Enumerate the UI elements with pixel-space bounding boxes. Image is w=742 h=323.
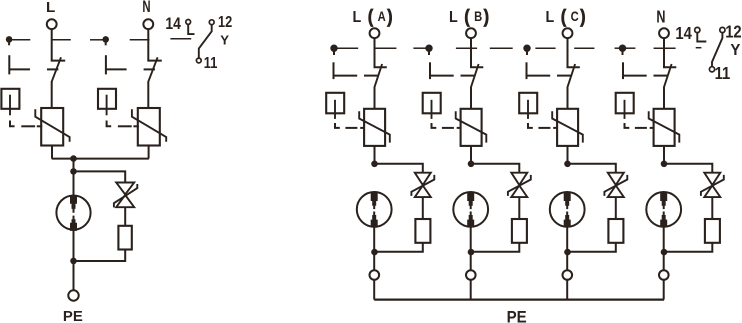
bidirectional suppressor diode (L(C) path) bbox=[608, 173, 624, 197]
resistor (N2 path) bbox=[705, 219, 720, 243]
wire N varistor to bus bbox=[148, 146, 150, 159]
vertical linkage dash N bbox=[105, 55, 107, 74]
junction dot on bus bbox=[70, 155, 77, 162]
terminal circle N2 bbox=[659, 28, 669, 38]
remote contact terminal 14 (right) bbox=[695, 27, 700, 32]
varistor MOV (N2 path) bbox=[654, 109, 675, 146]
varistor MOV (L(B) path) bbox=[461, 109, 482, 146]
contact blade 12-11 (left) bbox=[199, 25, 212, 58]
linkage dashed line (left) seg2 at L wire bbox=[52, 39, 71, 41]
vertical linkage dash L(C) bbox=[526, 62, 528, 79]
svg-text:): ) bbox=[484, 5, 489, 27]
svg-text:(: ( bbox=[464, 5, 469, 27]
resistor (L(C) path) bbox=[608, 219, 623, 243]
wire N2 disconnector to varistor bbox=[663, 87, 665, 109]
wire L(A) varistor to junction bbox=[374, 146, 376, 164]
varistor MOV (N path) bbox=[138, 108, 160, 146]
junction dot above PE bbox=[70, 258, 77, 265]
junction dot L(B) bbox=[468, 161, 475, 168]
horizontal linkage dash to L(A) blade bbox=[334, 75, 358, 77]
svg-text:12: 12 bbox=[725, 23, 741, 42]
svg-text:N: N bbox=[656, 8, 665, 28]
wire L(C) varistor to junction bbox=[567, 146, 569, 164]
wire L(A) disconnector to varistor bbox=[374, 87, 376, 109]
terminal circle L(C) bbox=[563, 28, 573, 38]
wire GDT to PE N2 bbox=[663, 227, 665, 270]
wire GDT to PE L(A) bbox=[373, 227, 375, 270]
horizontal linkage dash to L blade bbox=[9, 68, 30, 70]
terminal circle L(A) bbox=[370, 28, 380, 38]
wire GDT to PE L(C) bbox=[566, 227, 568, 270]
disconnect plunger (L path) bbox=[9, 95, 11, 116]
linkage dash b2 bbox=[490, 47, 513, 49]
branch wire to suppressor L(C) bbox=[568, 164, 616, 173]
linkage dash c1b right of L(C) wire bbox=[574, 47, 594, 49]
wire suppressor to resistor N2 bbox=[711, 197, 713, 219]
PE bus bbox=[374, 299, 664, 301]
remote contact terminal 12 (left) bbox=[209, 20, 214, 25]
PE path terminal circle L(C) bbox=[563, 270, 573, 280]
junction dot N2 bbox=[661, 161, 668, 168]
GDT lower electrode L(B) bbox=[467, 212, 474, 228]
disconnect plunger (L(B) path) bbox=[431, 100, 433, 119]
wire resistor to junction L(A) bbox=[375, 243, 423, 252]
wire to PE bus L(C) bbox=[566, 280, 568, 300]
varistor diagonal stroke (L path) bbox=[35, 109, 69, 141]
svg-text:Y: Y bbox=[220, 32, 229, 47]
linkage junction dot near L bbox=[6, 36, 13, 43]
wire L(A) terminal to disconnector bbox=[375, 38, 387, 67]
varistor MOV (L(C) path) bbox=[557, 109, 578, 146]
svg-text:L: L bbox=[546, 9, 555, 27]
wire L terminal to disconnector bbox=[52, 29, 65, 60]
remote contact terminal 11 (left) bbox=[196, 58, 201, 63]
remote contact terminal 12 (right) bbox=[720, 27, 725, 32]
wire L(B) disconnector to varistor bbox=[470, 87, 472, 109]
vertical linkage dash N2 bbox=[622, 62, 624, 79]
wire L(C) terminal to disconnector bbox=[568, 38, 580, 67]
svg-text:PE: PE bbox=[63, 308, 83, 323]
GDT upper electrode L(B) bbox=[467, 192, 474, 209]
contact blade 12-11 (right) bbox=[712, 33, 722, 67]
wire L(C) disconnector to varistor bbox=[567, 87, 569, 109]
wire resistor to junction N2 bbox=[664, 243, 712, 252]
dashed link below box (L(C) path) bbox=[528, 123, 533, 128]
wire suppressor to resistor bbox=[124, 207, 126, 226]
dashed link below box (L(A) path) bbox=[335, 123, 340, 128]
svg-text:A: A bbox=[378, 9, 386, 24]
resistor (left) bbox=[118, 226, 131, 250]
linkage dash crossing N blade bbox=[144, 68, 155, 70]
vertical linkage dash L(B) bbox=[429, 62, 431, 79]
wire L varistor to bus bbox=[51, 146, 53, 159]
suppressor diagonal stroke (left) bbox=[114, 184, 137, 207]
thermal disconnector switch blade (L(C) path) bbox=[567, 64, 575, 88]
gas discharge tube (L(B) path) bbox=[453, 192, 488, 227]
wire N2 varistor to junction bbox=[663, 146, 665, 164]
linkage dash n2 bbox=[654, 47, 676, 49]
wire resistor to junction L(B) bbox=[471, 243, 519, 252]
GDT lower electrode L(C) bbox=[564, 212, 571, 228]
wire N disconnector to varistor bbox=[147, 81, 149, 108]
branch wire to suppressor N2 bbox=[664, 164, 712, 173]
terminal circle N bbox=[143, 19, 153, 29]
wire to PE bus L(B) bbox=[470, 280, 472, 300]
varistor MOV (L path) bbox=[41, 108, 63, 146]
wire resistor to junction L(C) bbox=[568, 243, 616, 252]
GDT upper electrode bbox=[70, 195, 77, 212]
svg-text:C: C bbox=[571, 9, 579, 24]
wire to PE bus L(A) bbox=[373, 280, 375, 300]
wire suppressor to resistor L(B) bbox=[518, 197, 520, 219]
linkage dash crossing L(C) blade bbox=[557, 75, 572, 77]
wire suppressor to resistor L(C) bbox=[615, 197, 617, 219]
branch wire to suppressor L(A) bbox=[375, 164, 423, 173]
gas discharge tube (N2 path) bbox=[646, 192, 681, 227]
linkage dashed line (left) seg1 bbox=[12, 39, 30, 41]
GDT lower electrode L(A) bbox=[371, 212, 378, 228]
svg-text:11: 11 bbox=[715, 64, 731, 83]
svg-text:(: ( bbox=[561, 5, 566, 27]
bus wire joining varistors bbox=[52, 158, 149, 160]
GDT lower electrode bbox=[70, 216, 77, 231]
linkage dot L(B) bbox=[425, 45, 432, 52]
svg-text:(: ( bbox=[368, 5, 373, 27]
varistor diagonal stroke (N2 path) bbox=[649, 111, 680, 142]
linkage dash crossing L blade bbox=[47, 68, 58, 70]
varistor diagonal stroke (N path) bbox=[132, 109, 166, 141]
thermal disconnector switch blade (N path) bbox=[148, 57, 157, 81]
thermal disconnector switch blade (L(B) path) bbox=[471, 64, 479, 88]
linkage dot N2 bbox=[619, 45, 626, 52]
varistor MOV (L(A) path) bbox=[364, 109, 385, 146]
linkage dash to contact (left) bbox=[170, 38, 191, 40]
horizontal linkage dash to N blade bbox=[106, 68, 127, 70]
gas discharge tube (L(C) path) bbox=[550, 192, 585, 227]
linkage dash a1b at L(A) wire bbox=[375, 47, 397, 49]
linkage dash crossing N2 blade bbox=[654, 75, 669, 77]
wire L(B) terminal to disconnector bbox=[471, 38, 483, 67]
svg-text:L: L bbox=[46, 0, 55, 16]
remote contact terminal 14 (left) bbox=[186, 20, 191, 25]
GDT upper electrode L(A) bbox=[371, 192, 378, 209]
resistor (L(A) path) bbox=[415, 219, 430, 243]
linkage dot L(A) bbox=[330, 45, 337, 52]
bidirectional suppressor diode (L(B) path) bbox=[511, 173, 527, 197]
wire suppressor to resistor L(A) bbox=[422, 197, 424, 219]
varistor diagonal stroke (L(B) path) bbox=[456, 111, 487, 142]
linkage junction dot near N bbox=[102, 36, 109, 43]
resistor (L(B) path) bbox=[512, 219, 527, 243]
PE terminal circle (left) bbox=[68, 290, 78, 300]
PE path terminal circle L(A) bbox=[370, 270, 380, 280]
suppressor diagonal stroke (L(A) path) bbox=[411, 175, 434, 196]
junction dot L(C) bbox=[564, 161, 571, 168]
disconnect plunger (L(A) path) bbox=[334, 100, 336, 119]
disconnect plunger (L(C) path) bbox=[527, 100, 529, 119]
svg-text:L: L bbox=[353, 9, 362, 27]
dashed link below box (N path) bbox=[107, 121, 112, 127]
linkage dashed line (left) seg3 bbox=[90, 39, 103, 41]
svg-text:B: B bbox=[474, 9, 482, 24]
gas discharge tube (left) bbox=[56, 196, 90, 230]
linkage dash crossing L(B) blade bbox=[461, 75, 476, 77]
horizontal linkage dash to N2 blade bbox=[623, 75, 647, 77]
linkage dash b1 bbox=[456, 47, 477, 49]
vertical linkage dash L bbox=[8, 55, 10, 74]
suppressor diagonal stroke (L(B) path) bbox=[508, 175, 531, 196]
disconnect plunger (N2 path) bbox=[624, 100, 626, 119]
junction dot L(A) bbox=[371, 161, 378, 168]
svg-text:12: 12 bbox=[218, 14, 232, 31]
gas discharge tube (L(A) path) bbox=[357, 192, 392, 227]
bidirectional suppressor diode (N2 path) bbox=[704, 173, 720, 197]
linkage dash a2 bbox=[413, 47, 426, 49]
thermal disconnect device box (L(C) path) bbox=[519, 93, 537, 114]
thermal disconnector switch blade (L(A) path) bbox=[374, 64, 382, 88]
thermal disconnector switch blade (L path) bbox=[52, 57, 61, 81]
dashed link below box (N2 path) bbox=[625, 123, 630, 128]
GDT upper electrode L(C) bbox=[564, 192, 571, 209]
thermal disconnect device box (L(A) path) bbox=[326, 93, 344, 114]
thermal disconnector switch blade (N2 path) bbox=[664, 64, 672, 88]
terminal circle L bbox=[47, 19, 57, 29]
svg-text:14: 14 bbox=[165, 15, 181, 34]
wire N2 terminal to disconnector bbox=[664, 38, 676, 67]
suppressor diagonal stroke (N2 path) bbox=[701, 175, 724, 196]
wire L(B) varistor to junction bbox=[470, 146, 472, 164]
thermal disconnect device box (N path) bbox=[98, 89, 116, 109]
svg-text:L: L bbox=[449, 9, 458, 27]
suppressor diagonal stroke (L(C) path) bbox=[604, 175, 627, 196]
linkage dashed line (left) seg4 to N wire bbox=[130, 39, 150, 41]
dashed link below box (L(B) path) bbox=[432, 123, 437, 128]
thermal disconnect device box (L(B) path) bbox=[423, 93, 441, 114]
wire L disconnector to varistor bbox=[51, 81, 53, 108]
wire to PE bus N2 bbox=[663, 280, 665, 300]
svg-text:11: 11 bbox=[204, 55, 218, 72]
wire GDT to PE L(B) bbox=[470, 227, 472, 270]
wire resistor to junction bbox=[74, 250, 126, 262]
svg-text:14: 14 bbox=[675, 24, 691, 43]
branch wire to suppressor L(B) bbox=[471, 164, 519, 173]
varistor diagonal stroke (L(C) path) bbox=[552, 111, 583, 142]
dashed link below box (L path) bbox=[10, 121, 15, 127]
linkage dash c2 bbox=[615, 47, 620, 49]
wire GDT to PE terminal bbox=[73, 230, 75, 291]
junction dot lower N2 bbox=[661, 249, 668, 256]
junction dot lower L(C) bbox=[564, 249, 571, 256]
GDT lower electrode N2 bbox=[660, 212, 667, 228]
horizontal linkage dash to L(C) blade bbox=[527, 75, 551, 77]
GDT upper electrode N2 bbox=[660, 192, 667, 209]
PE path terminal circle N2 bbox=[659, 270, 669, 280]
junction dot lower L(B) bbox=[468, 249, 475, 256]
vertical linkage dash L(A) bbox=[333, 62, 335, 79]
varistor diagonal stroke (L(A) path) bbox=[359, 111, 390, 142]
disconnect plunger (N path) bbox=[106, 95, 108, 116]
horizontal linkage dash to L(B) blade bbox=[430, 75, 454, 77]
linkage dash crossing L(A) blade bbox=[364, 75, 379, 77]
wire bus to gas discharge tube bbox=[73, 159, 75, 200]
svg-text:): ) bbox=[387, 5, 392, 27]
svg-text:PE: PE bbox=[507, 309, 527, 323]
bidirectional suppressor diode (L(A) path) bbox=[415, 173, 431, 197]
PE path terminal circle L(B) bbox=[466, 270, 476, 280]
svg-text:Y: Y bbox=[730, 42, 741, 59]
wire N terminal to disconnector bbox=[148, 29, 162, 60]
thermal disconnect device box (L path) bbox=[1, 89, 19, 109]
terminal circle L(B) bbox=[466, 28, 476, 38]
remote contact terminal 11 (right) bbox=[709, 67, 714, 72]
linkage dash a1 bbox=[338, 47, 359, 49]
svg-text:N: N bbox=[142, 0, 150, 15]
bidirectional suppressor diode (left) bbox=[116, 183, 134, 208]
linkage dash c1 bbox=[535, 47, 555, 49]
linkage dash n1 bbox=[626, 47, 636, 49]
linkage dash to right contact bbox=[696, 47, 702, 49]
junction dot at branch bbox=[70, 168, 77, 175]
wire branch to suppressor diode bbox=[74, 171, 126, 182]
linkage dot L(C) bbox=[523, 45, 530, 52]
junction dot lower L(A) bbox=[371, 249, 378, 256]
thermal disconnect device box (N2 path) bbox=[616, 93, 634, 114]
svg-text:): ) bbox=[580, 5, 585, 27]
